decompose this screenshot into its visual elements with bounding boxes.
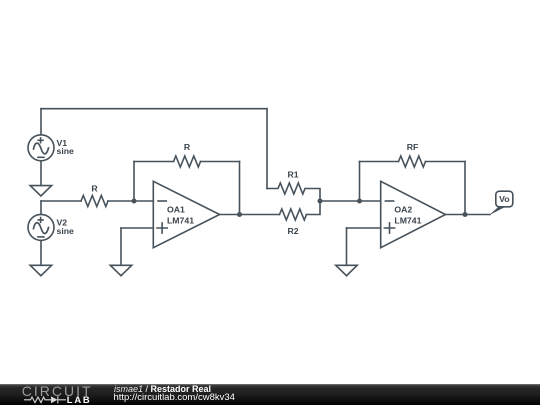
OA1 plus symbol: [157, 223, 167, 233]
resistor R2: [280, 209, 307, 220]
ground below OA2 plus: [336, 265, 357, 275]
flag Vo: [489, 191, 513, 215]
junction node (OA1 output): [237, 212, 242, 217]
wire feedback to R: [134, 161, 174, 163]
wire OA2 output: [446, 214, 491, 216]
OA2 minus symbol: [385, 200, 393, 202]
op-amp OA2: [381, 181, 446, 247]
wire feedback right vertical (OA1): [239, 162, 241, 215]
label V1: [57, 138, 75, 156]
wire feedback left vertical (OA2): [359, 162, 361, 202]
OA2 plus symbol: [384, 223, 394, 233]
svg-text:R2: R2: [287, 226, 298, 236]
wire feedback right vertical (OA2): [464, 162, 466, 215]
ground below V2: [30, 265, 51, 275]
CircuitLab logo: [0, 384, 110, 405]
wire feedback to RF: [360, 161, 399, 163]
svg-text:sine: sine: [57, 226, 75, 236]
resistor RF: [399, 156, 426, 167]
svg-text:LM741: LM741: [394, 215, 421, 225]
svg-text:R: R: [184, 142, 191, 152]
junction node (OA2 output): [463, 212, 468, 217]
label R2: [287, 226, 298, 236]
svg-text:sine: sine: [57, 146, 75, 156]
label R (input): [91, 184, 98, 194]
op-amp OA1: [153, 181, 219, 247]
junction node (OA2 inverting): [357, 199, 362, 204]
svg-text:RF: RF: [407, 142, 419, 152]
label V2: [57, 218, 75, 236]
wire top rail down to R1: [266, 109, 268, 189]
resistor R (feedback OA1): [174, 156, 201, 167]
footer url text: [114, 392, 235, 403]
svg-text:LM741: LM741: [167, 215, 194, 225]
wire R to inverting node: [108, 200, 153, 202]
wire RF to right vertical: [426, 161, 466, 163]
resistor R1: [267, 183, 320, 201]
wire R to right vertical: [201, 161, 240, 163]
OA1 minus symbol: [158, 200, 166, 202]
junction node (R input / OA1 inverting): [132, 199, 137, 204]
ground below OA1 plus: [110, 265, 131, 275]
junction node (R1 R2 join): [318, 199, 323, 204]
wire V2 bottom to ground: [40, 240, 42, 265]
wire R2 right to junction: [307, 201, 321, 215]
label R1: [287, 170, 298, 180]
wire OA1 output: [220, 214, 280, 216]
label OA1 LM741: [167, 204, 194, 225]
wire stub down: [120, 228, 122, 265]
wire feedback left vertical (OA1): [133, 162, 135, 202]
wire top rail: [41, 108, 267, 110]
wire V2 top: [40, 201, 42, 214]
resistor R (input): [81, 196, 108, 207]
source V2: [28, 214, 54, 240]
svg-text:OA2: OA2: [394, 204, 412, 214]
source V1: [28, 135, 54, 161]
svg-text:Vo: Vo: [499, 194, 509, 204]
footer bar: [0, 384, 540, 405]
wire junction to OA2 inverting node: [320, 200, 381, 202]
ground below V1: [30, 186, 51, 196]
svg-text:OA1: OA1: [167, 204, 185, 214]
svg-text:R1: R1: [287, 170, 298, 180]
wire OA2 plus input to ground stub: [347, 227, 381, 229]
footer title text: [114, 384, 211, 394]
wire V1 top to top rail: [40, 109, 42, 135]
svg-text:R: R: [91, 184, 98, 194]
wire V1 bottom to ground: [40, 161, 42, 186]
label RF: [407, 142, 419, 152]
label Vo: [499, 194, 509, 204]
label R (feedback OA1): [184, 142, 191, 152]
svg-text:LAB: LAB: [67, 394, 92, 405]
wire V2 to R: [41, 200, 81, 202]
wire stub down: [346, 228, 348, 265]
wire OA1 plus input to ground stub: [121, 227, 153, 229]
label OA2 LM741: [394, 204, 421, 225]
